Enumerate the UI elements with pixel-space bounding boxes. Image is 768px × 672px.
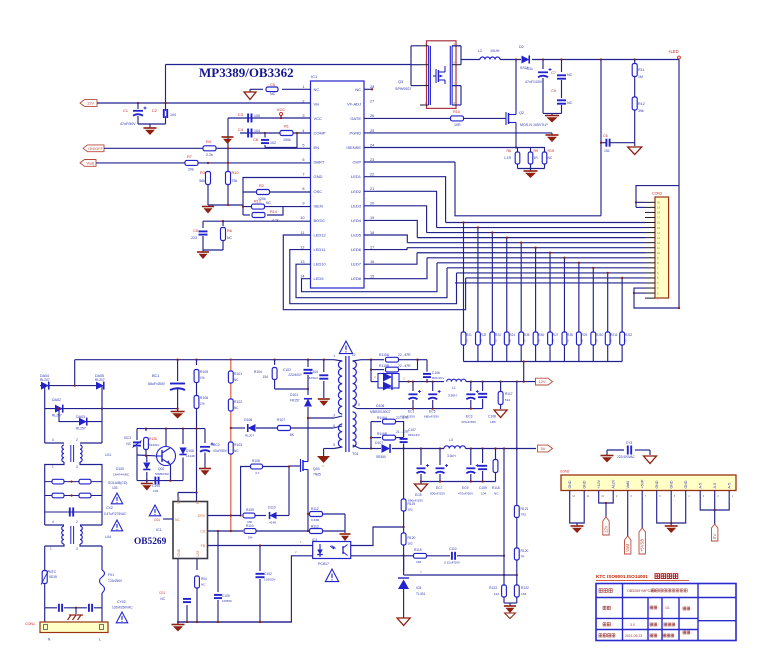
- resistor R204: [504, 332, 509, 345]
- svg-text:C4: C4: [238, 127, 244, 132]
- capacitor EC1 680uF/25V: [412, 382, 414, 391]
- diode D103 MBR20100CT: [370, 370, 372, 382]
- svg-text:C104: C104: [152, 484, 160, 488]
- svg-text:C108: C108: [488, 415, 496, 419]
- svg-text:0: 0: [495, 339, 497, 343]
- wire bridge plus riser: [74, 360, 76, 386]
- svg-text:R14: R14: [270, 210, 277, 214]
- svg-text:N: N: [48, 638, 51, 642]
- svg-text:154: 154: [263, 375, 269, 379]
- svg-text:1%: 1%: [200, 402, 205, 406]
- svg-text:C11: C11: [526, 67, 533, 71]
- capacitor EC8 680uF/25V: [420, 449, 422, 466]
- wire bridge right vertical: [101, 386, 103, 443]
- svg-text:PC817: PC817: [318, 562, 329, 566]
- resistor R201: [461, 332, 466, 345]
- svg-text:R12: R12: [638, 102, 645, 106]
- wire pin28 NC stub: [364, 88, 372, 90]
- ground R117: [494, 410, 507, 418]
- svg-text:1: 1: [333, 354, 335, 358]
- wire LED bus 6: [417, 252, 645, 254]
- resistor R117 512: [500, 382, 502, 391]
- ground fb divider: [504, 602, 517, 604]
- svg-text:NC: NC: [314, 87, 320, 92]
- svg-text:R123: R123: [489, 586, 497, 590]
- wire con2 12V pins: [599, 491, 614, 504]
- resistor R103 NC: [228, 442, 233, 454]
- wire c7c9 bottom: [543, 112, 562, 114]
- resistor R118 NC: [495, 449, 497, 460]
- wire fb divider column: [403, 449, 405, 500]
- svg-text:ISENSE: ISENSE: [346, 145, 361, 150]
- wire ISENSE pin24: [364, 147, 516, 149]
- svg-text:22...47R: 22...47R: [396, 416, 409, 420]
- capacitor EC5 680uF/25V: [432, 382, 434, 391]
- svg-text:26: 26: [370, 114, 374, 118]
- node 5V vertical flag: [712, 524, 718, 541]
- wire LED7 jog: [364, 253, 417, 264]
- svg-text:D105: D105: [116, 467, 124, 471]
- wire CS pin: [208, 530, 244, 532]
- svg-text:104: 104: [481, 492, 486, 496]
- svg-text:RJ1: RJ1: [466, 333, 472, 337]
- svg-text:LED4: LED4: [351, 218, 362, 223]
- svg-text:IC1: IC1: [311, 74, 318, 79]
- svg-text:3.3uH: 3.3uH: [448, 394, 457, 398]
- svg-text:47uF/50V: 47uF/50V: [213, 449, 228, 453]
- svg-text:LED1: LED1: [351, 174, 362, 179]
- wire sec pin12: [353, 360, 361, 361]
- svg-text:223: 223: [191, 236, 197, 240]
- transistor Q02 S8050: [157, 447, 176, 466]
- wire OVP pin23 route: [364, 161, 455, 163]
- svg-text:L: L: [99, 638, 101, 642]
- svg-text:7N65: 7N65: [313, 473, 321, 477]
- resistor R123 123: [503, 575, 505, 585]
- svg-text:CON2: CON2: [560, 470, 570, 474]
- svg-text:F01: F01: [108, 573, 114, 577]
- resistor R212: [620, 332, 625, 345]
- diode D106 4148: [182, 429, 184, 444]
- svg-text:0: 0: [509, 339, 511, 343]
- wire EN pin5: [104, 147, 311, 149]
- svg-text:0.22uF/50V: 0.22uF/50V: [444, 561, 461, 565]
- svg-text:D108: D108: [244, 418, 252, 422]
- diode DA03 RL257: [59, 409, 102, 422]
- svg-text:1R: 1R: [534, 156, 539, 160]
- wire 5V rail: [466, 448, 537, 450]
- svg-text:R116A: R116A: [377, 416, 388, 420]
- svg-text:R115: R115: [414, 548, 422, 552]
- svg-text:Q2: Q2: [519, 111, 524, 115]
- svg-text:DRV: DRV: [198, 514, 206, 518]
- svg-text:104: 104: [170, 113, 176, 117]
- svg-text:2: 2: [76, 438, 78, 442]
- svg-text:182: 182: [408, 542, 413, 546]
- resistor R10b 75k: [226, 172, 231, 185]
- wire vcc feed: [178, 492, 197, 494]
- svg-text:D107: D107: [375, 441, 383, 445]
- svg-text:4: 4: [302, 129, 304, 133]
- svg-text:151: 151: [604, 149, 610, 153]
- svg-text:NC: NC: [234, 449, 239, 453]
- resistor R7 20k: [185, 160, 198, 165]
- wire LED6 jog: [364, 248, 407, 250]
- wire BOSC pin10: [203, 220, 311, 222]
- svg-text:RL207: RL207: [245, 434, 254, 438]
- svg-text:DA03: DA03: [76, 415, 85, 419]
- wire LED drop 4: [506, 238, 508, 332]
- resistor R119 182: [401, 499, 406, 511]
- resistor R113 0.33R: [310, 529, 323, 534]
- svg-text:T2A/250V: T2A/250V: [108, 579, 123, 583]
- wire LED bus 7: [427, 257, 645, 259]
- svg-text:104: 104: [254, 129, 260, 133]
- svg-text:25: 25: [370, 129, 374, 133]
- diode D107 SR360: [382, 444, 391, 453]
- svg-text:0: 0: [553, 339, 555, 343]
- svg-text:0: 0: [625, 339, 627, 343]
- svg-text:19: 19: [370, 216, 374, 220]
- svg-text:R4: R4: [206, 139, 212, 144]
- svg-text:LED8: LED8: [351, 276, 362, 281]
- svg-text:18: 18: [370, 231, 374, 235]
- svg-text:102M/250VAC: 102M/250VAC: [112, 606, 133, 610]
- resistor RX2: [45, 495, 102, 497]
- ground ovp divider: [634, 143, 636, 146]
- svg-text:Q3: Q3: [398, 79, 403, 84]
- svg-text::: :: [612, 623, 613, 627]
- wire LED10 U route: [296, 264, 447, 298]
- wire PGND pin25: [364, 132, 552, 134]
- svg-text::: :: [692, 631, 693, 635]
- svg-text:DBRT: DBRT: [314, 160, 325, 165]
- svg-text:RL207: RL207: [40, 378, 50, 382]
- svg-text:20: 20: [370, 202, 374, 206]
- svg-text:R108: R108: [252, 459, 260, 463]
- capacitor C4 104: [247, 129, 249, 138]
- wire Q3 drain to L2: [461, 59, 480, 61]
- svg-text::: :: [659, 623, 660, 627]
- resistor R126 512/NC: [145, 429, 147, 431]
- svg-text:Vadj: Vadj: [86, 161, 94, 166]
- wire 12V top rail: [166, 64, 412, 66]
- svg-text:Q03: Q03: [313, 467, 320, 471]
- svg-text:800uF/25V: 800uF/25V: [430, 492, 446, 496]
- svg-text::: :: [612, 607, 613, 611]
- wire NC pin left: [163, 518, 173, 520]
- resistor R10 10R gate: [451, 116, 464, 121]
- capacitor C106 R01/1KV snubber: [418, 359, 428, 361]
- svg-text:2: 2: [322, 464, 324, 468]
- svg-text:22...47R: 22...47R: [398, 353, 411, 357]
- svg-text:1%: 1%: [200, 376, 205, 380]
- svg-text:C5: C5: [193, 229, 198, 233]
- svg-text:NC: NC: [234, 378, 239, 382]
- svg-text:VCC: VCC: [277, 107, 285, 112]
- wire startup rail: [137, 428, 205, 430]
- capacitor BC1 68uF/450V: [177, 360, 179, 381]
- svg-text:C100: C100: [310, 370, 318, 374]
- wire LED bus 12: [455, 282, 645, 284]
- wire Q02 emitter down: [170, 464, 172, 481]
- svg-text:VaM: VaM: [625, 543, 630, 552]
- svg-text:NC: NC: [494, 492, 499, 496]
- svg-text:C1: C1: [123, 108, 129, 113]
- capacitor C100 182/1kV: [323, 360, 325, 372]
- svg-text:RL257: RL257: [76, 427, 86, 431]
- fuse F01 T2A/250V: [101, 546, 103, 570]
- wire LED1 jog: [364, 177, 446, 223]
- capacitor C6b 151 ovp: [605, 139, 607, 147]
- svg-text:16: 16: [370, 260, 374, 264]
- wire LED bus 3: [417, 237, 645, 239]
- capacitor C110 0.22uF/50V: [451, 552, 453, 560]
- svg-text:9: 9: [616, 494, 618, 498]
- resistor R4 2.2k: [203, 146, 216, 151]
- svg-text:39k: 39k: [638, 109, 644, 113]
- svg-text:3: 3: [403, 377, 405, 381]
- svg-text:IC1: IC1: [156, 528, 162, 532]
- wire LED bus 9: [447, 267, 645, 269]
- svg-text:GND: GND: [314, 174, 323, 179]
- svg-text:1.1R: 1.1R: [504, 156, 512, 160]
- capacitor BC3 NC trimmer: [136, 429, 138, 440]
- svg-text:NC: NC: [270, 92, 276, 96]
- ground PGND: [551, 133, 553, 135]
- svg-text:GND: GND: [582, 480, 586, 488]
- wire con2 VaM pin: [627, 491, 629, 537]
- svg-text:123: 123: [494, 592, 499, 596]
- ground near C3: [222, 136, 234, 138]
- svg-text:CY02: CY02: [117, 600, 126, 604]
- svg-text:RJ2: RJ2: [481, 333, 487, 337]
- svg-text:222/400VAC: 222/400VAC: [617, 455, 636, 459]
- svg-text:68uF/450V: 68uF/450V: [148, 382, 166, 386]
- svg-text:ON/OFF: ON/OFF: [88, 146, 103, 151]
- wire +LED to pins 20 19: [636, 186, 679, 208]
- svg-text:LED5: LED5: [351, 233, 362, 238]
- svg-text:47uF/100V: 47uF/100V: [525, 80, 543, 84]
- svg-text:21: 21: [370, 187, 374, 191]
- pin 8 CON3: [645, 262, 655, 264]
- svg-text::: :: [659, 606, 660, 610]
- svg-text:EC9: EC9: [462, 486, 469, 490]
- svg-text:470uF/35V: 470uF/35V: [461, 420, 477, 424]
- svg-text:1: 1: [300, 540, 302, 544]
- svg-text:RJ3: RJ3: [495, 333, 501, 337]
- resistor R116B 22...47R: [371, 437, 381, 439]
- svg-text:R107: R107: [277, 418, 285, 422]
- svg-text:R1: R1: [284, 124, 289, 129]
- warning triangle x-cap: [111, 493, 122, 504]
- resistor R15 NC: [542, 152, 547, 164]
- resistor R104b NC: [195, 576, 200, 588]
- wire con2 gnd pins 12 11: [570, 491, 585, 524]
- svg-text:R3: R3: [200, 170, 205, 175]
- wire LED3 jog: [364, 206, 427, 233]
- inductor L3 3.3uH: [444, 446, 466, 449]
- resistor R206: [533, 332, 538, 345]
- ground rail under R3 R10: [208, 204, 243, 206]
- resistor R8 1.1R: [515, 152, 520, 164]
- svg-text:RJ12: RJ12: [625, 333, 633, 337]
- svg-text:C6: C6: [253, 137, 258, 142]
- svg-text:7: 7: [454, 82, 456, 86]
- ground B minus: [177, 409, 179, 411]
- svg-text:C107: C107: [408, 428, 416, 432]
- pin 15 CON3: [645, 227, 655, 229]
- wire LED drop 6: [535, 248, 537, 332]
- svg-text:L2: L2: [478, 49, 482, 53]
- svg-text:FB: FB: [201, 544, 206, 548]
- wire LED drop 7: [549, 253, 551, 332]
- svg-text:CON1: CON1: [25, 622, 35, 626]
- svg-text:3: 3: [76, 547, 78, 551]
- node 5V flag: [538, 445, 553, 452]
- svg-text:LED3: LED3: [351, 203, 362, 208]
- svg-text:D101: D101: [290, 393, 298, 397]
- svg-text:NTC: NTC: [49, 570, 57, 574]
- svg-text:13: 13: [300, 260, 304, 264]
- wire DRV pin: [208, 515, 241, 517]
- capacitor EC3 470uF/35V: [470, 382, 472, 391]
- svg-text:7: 7: [302, 173, 304, 177]
- svg-text:2: 2: [374, 375, 376, 379]
- wire LED bus 8: [437, 262, 645, 264]
- svg-text:NC: NC: [201, 583, 206, 587]
- svg-text:0: 0: [610, 339, 612, 343]
- op-amp IC1 MP3389 body: [311, 81, 365, 288]
- ground 5V rail: [420, 482, 422, 484]
- svg-text:C110: C110: [449, 547, 457, 551]
- wire LED drop 12: [621, 278, 623, 332]
- svg-text:680uF/25V: 680uF/25V: [424, 415, 440, 419]
- svg-text:17: 17: [370, 245, 374, 249]
- svg-text:4: 4: [52, 438, 54, 442]
- svg-text:15: 15: [370, 275, 374, 279]
- svg-text:D110: D110: [268, 506, 276, 510]
- svg-text:R115B: R115B: [379, 364, 390, 368]
- connector CON1: [44, 608, 46, 622]
- resistor R207: [548, 332, 553, 345]
- resistor R202: [476, 332, 481, 345]
- svg-text:56k: 56k: [199, 179, 205, 183]
- wire opto emitter route: [351, 555, 404, 557]
- svg-text:BC1: BC1: [152, 374, 159, 378]
- sense resistor bus top: [516, 147, 545, 149]
- svg-text:C102: C102: [264, 572, 272, 576]
- wire startup bottom: [137, 480, 183, 482]
- resistor R105 1M: [196, 360, 198, 365]
- pin 11 CON3: [645, 247, 655, 249]
- svg-text:104: 104: [153, 489, 158, 493]
- svg-text:Vin: Vin: [314, 101, 320, 106]
- capacitor C105 104/50K: [217, 531, 219, 592]
- svg-text:R101: R101: [234, 372, 242, 376]
- svg-text:3.0: 3.0: [630, 623, 635, 627]
- svg-text:470uF/50V: 470uF/50V: [458, 492, 474, 496]
- svg-text::: :: [659, 634, 660, 638]
- svg-text:1N4744/NC: 1N4744/NC: [113, 473, 130, 477]
- svg-text:C6: C6: [603, 134, 608, 138]
- svg-text:RJ9: RJ9: [581, 333, 587, 337]
- svg-text:1M: 1M: [638, 75, 643, 79]
- node +5VSB vertical flag: [639, 528, 645, 554]
- svg-text:BC2: BC2: [213, 443, 220, 447]
- pin 16 CON3: [645, 222, 655, 224]
- wire B+ rail: [75, 359, 334, 361]
- resistor R208: [562, 332, 567, 345]
- wire cap bottoms: [138, 123, 166, 125]
- svg-text:5V: 5V: [712, 534, 717, 539]
- svg-text:183: 183: [521, 592, 526, 596]
- svg-text:KTC ISO9001.ISO14001: KTC ISO9001.ISO14001: [596, 574, 648, 579]
- svg-text:EC5: EC5: [429, 410, 436, 414]
- resistor R120 182: [401, 533, 406, 545]
- svg-text:1: 1: [302, 85, 304, 89]
- capacitor C108 104: [482, 382, 484, 391]
- capacitor CY3 222/400VAC: [607, 449, 624, 451]
- svg-text:R7: R7: [187, 154, 192, 159]
- wire startup base: [137, 454, 155, 457]
- svg-text::: :: [615, 589, 616, 594]
- svg-text:0: 0: [524, 339, 526, 343]
- svg-text:RJ4: RJ4: [509, 333, 515, 337]
- svg-text:A-5: A-5: [698, 483, 702, 489]
- wire LED bus 5: [407, 247, 645, 249]
- svg-text:103: 103: [112, 486, 118, 490]
- thermistor NTC 9D15: [44, 546, 46, 570]
- svg-text::: :: [692, 607, 693, 611]
- resistor R107 8K: [256, 427, 277, 429]
- capacitor C2 104: [165, 103, 167, 109]
- svg-text:R120: R120: [521, 549, 529, 553]
- svg-text:2011.05.23: 2011.05.23: [625, 634, 642, 638]
- svg-text:RL257: RL257: [52, 414, 62, 418]
- svg-text:2: 2: [76, 520, 78, 524]
- diode D101 FR157: [307, 389, 309, 395]
- svg-text:7: 7: [355, 441, 357, 445]
- svg-text:C01: C01: [154, 518, 160, 522]
- svg-text:R10: R10: [232, 170, 240, 175]
- wire tl431 ref: [409, 574, 517, 576]
- resistor R115B 22...47R: [370, 360, 372, 370]
- wire LED bus 10: [457, 272, 646, 274]
- svg-text:2: 2: [295, 550, 297, 554]
- resistor R2 120k: [243, 191, 311, 193]
- node ON/OFF flag: [83, 145, 104, 152]
- ground C100: [318, 398, 330, 400]
- svg-text:R01/1KV: R01/1KV: [432, 376, 445, 380]
- ground BC2: [199, 468, 211, 470]
- wire vertical x228 vcc filter: [227, 118, 229, 205]
- shunt reg IC5 TL431: [403, 556, 405, 575]
- resistor R115b 182: [414, 553, 427, 558]
- svg-text:R105: R105: [200, 370, 208, 374]
- svg-text:MBR20100CT: MBR20100CT: [370, 410, 391, 414]
- svg-text:R110: R110: [246, 524, 254, 528]
- wire bosc bottom: [203, 249, 223, 251]
- svg-text:C109: C109: [479, 486, 487, 490]
- svg-text:RJ11: RJ11: [610, 333, 617, 337]
- svg-text:MP3389/OB3362: MP3389/OB3362: [199, 65, 294, 80]
- svg-text:102/50V: 102/50V: [264, 578, 276, 582]
- ground bosc: [202, 250, 204, 252]
- wire LED5 jog: [364, 235, 407, 243]
- svg-text:MOS-N 100V7LP: MOS-N 100V7LP: [520, 123, 548, 127]
- svg-text:+5VSB: +5VSB: [640, 539, 645, 552]
